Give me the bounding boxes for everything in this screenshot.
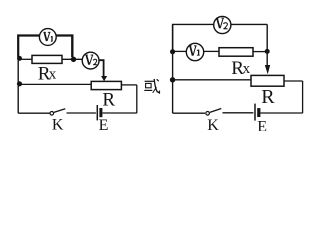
svg-text:R: R <box>102 89 115 110</box>
svg-text:x: x <box>243 61 251 77</box>
svg-text:E: E <box>257 119 267 131</box>
svg-text:K: K <box>207 117 219 131</box>
svg-text:R: R <box>261 86 275 108</box>
svg-text:x: x <box>49 67 57 83</box>
svg-text:K: K <box>52 117 64 131</box>
svg-text:E: E <box>99 117 109 131</box>
